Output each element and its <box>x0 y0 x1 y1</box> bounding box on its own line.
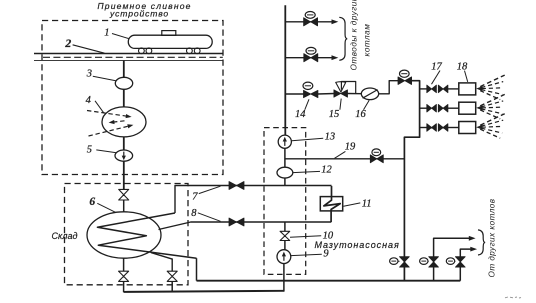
wire drain valve B down <box>171 281 173 291</box>
rotated label "Отводы к другим котлам" <box>350 0 372 71</box>
rails (track) <box>34 54 223 61</box>
scan artifacts bottom right <box>505 297 521 298</box>
burner 18 nozzle <box>459 102 476 114</box>
valve with gauge on recirculation riser <box>390 257 410 267</box>
drain valve A <box>119 271 129 281</box>
burner 18 nozzle <box>459 122 476 134</box>
wire valve to tank 6 <box>123 200 125 212</box>
dashed enclosure - Мазутонасосная pump house <box>264 128 306 275</box>
wire pump 16 to header valve <box>379 81 399 94</box>
svg-text:17: 17 <box>431 62 442 73</box>
label 13 <box>292 132 335 143</box>
drain valve B <box>167 271 177 281</box>
wire pump 13 to oval 12 <box>284 148 286 167</box>
svg-text:котлам: котлам <box>363 24 372 57</box>
pump 5 <box>115 150 133 161</box>
svg-text:Отводы к другим: Отводы к другим <box>350 0 359 71</box>
wire filter 15 to pump 16 <box>347 93 361 95</box>
valve with gauge (middle riser) <box>420 257 439 267</box>
valve 10 <box>280 231 290 240</box>
pump suction header (bottom left) <box>124 291 284 292</box>
main riser wire (top) <box>284 5 286 135</box>
svg-text:4: 4 <box>86 95 92 106</box>
burner branch 1 with valves 17 <box>420 85 459 93</box>
tank bottom drain B diagonal <box>151 253 172 272</box>
pump 13 <box>278 135 291 148</box>
wire 4 to pump 5 <box>123 137 125 150</box>
svg-text:18: 18 <box>457 62 468 73</box>
label 15 <box>329 99 342 120</box>
svg-text:14: 14 <box>295 109 306 120</box>
heating coil zigzag through tank <box>97 213 196 258</box>
label 1 <box>104 27 128 38</box>
label 7 <box>192 186 220 203</box>
heat exchanger 11 loop <box>324 186 340 222</box>
suction line 7 from tank <box>175 186 332 214</box>
valve with gauge on line 19 <box>370 149 383 163</box>
wire valve 14 to filter 15 <box>318 93 335 96</box>
valve on line 7 <box>229 182 244 190</box>
svg-text:19: 19 <box>345 142 356 153</box>
return riser to recirculation line <box>196 258 198 281</box>
heater-mixer 4 <box>87 107 146 137</box>
recirculation return line (bottom) <box>197 280 461 282</box>
flow meter 12 <box>277 167 293 178</box>
wire pump 5 down to tank valve <box>123 161 125 189</box>
svg-text:8: 8 <box>191 208 197 219</box>
drain device 3 <box>115 77 132 89</box>
label 18 <box>457 62 468 82</box>
rotated label "От других котлов" <box>488 198 497 277</box>
dashed enclosure - receiving drain facility <box>42 21 223 175</box>
burner flame spray <box>476 114 505 139</box>
valve with gauge (right riser) <box>446 257 465 267</box>
branch to other boilers (upper) <box>285 19 338 24</box>
tank bottom drain A <box>123 258 125 271</box>
burner 18 nozzle <box>459 83 476 95</box>
svg-text:6: 6 <box>89 196 95 208</box>
label 4 <box>86 95 104 113</box>
wire 3 to 4 <box>123 89 125 107</box>
burner branch 2 with valves <box>420 104 459 112</box>
svg-text:15: 15 <box>329 109 340 120</box>
recirculation line 19 <box>285 158 404 160</box>
brace - ot drugih kotlov <box>478 230 485 255</box>
pump 9 <box>277 250 291 264</box>
burner flame spray <box>476 75 505 100</box>
valve with gauge (upper branch) <box>304 12 318 26</box>
label 11 <box>344 199 372 210</box>
svg-text:1: 1 <box>104 27 109 38</box>
svg-text:7: 7 <box>192 192 198 203</box>
label 9 <box>291 248 329 259</box>
wire rails to item 3 <box>123 61 125 78</box>
wire 12 to line 7 <box>284 178 286 186</box>
burner branch 3 with valves <box>420 124 459 132</box>
svg-text:2: 2 <box>64 36 71 50</box>
label 14 <box>295 99 309 120</box>
label 2 <box>64 36 104 53</box>
return riser from other boilers (right) <box>460 247 477 281</box>
valve on line 8 <box>229 218 244 226</box>
label 5 <box>87 145 117 156</box>
svg-text:От других котлов: От других котлов <box>488 198 497 277</box>
label 17 <box>431 62 442 85</box>
svg-text:10: 10 <box>323 230 334 241</box>
label 8 <box>191 208 220 222</box>
valve with gauge (lower branch) <box>304 47 318 61</box>
svg-text:5: 5 <box>87 145 92 156</box>
return riser from other boilers (middle) <box>434 236 476 281</box>
branch to other boilers (lower) <box>285 55 338 60</box>
burner header wire <box>404 81 419 281</box>
heat exchanger 11 body <box>320 197 342 211</box>
wire pump 9 to suction header <box>283 264 285 292</box>
label 19 <box>335 142 356 159</box>
svg-text:16: 16 <box>355 109 366 120</box>
svg-text:3: 3 <box>86 68 92 79</box>
brace - otvody <box>339 17 347 60</box>
svg-text:Склад: Склад <box>52 231 78 241</box>
wire line 8 to valve 10 <box>284 222 286 231</box>
label 6 <box>89 196 116 213</box>
storage tank 6 <box>87 212 161 258</box>
svg-text:13: 13 <box>325 132 336 143</box>
svg-text:11: 11 <box>362 199 372 210</box>
wire valve 10 to pump 9 <box>284 241 286 250</box>
suction line 8 from tank <box>159 222 332 230</box>
dashed divider through rails <box>43 56 223 58</box>
wire drain valve A to suction header <box>123 281 125 292</box>
svg-text:устройство: устройство <box>109 9 169 19</box>
label 16 <box>355 100 369 120</box>
burner flame spray <box>476 94 505 119</box>
label 12 <box>293 164 333 175</box>
title "Приемное сливное устройство" <box>97 1 191 19</box>
label 10 <box>290 230 334 241</box>
label 3 <box>86 68 116 80</box>
tank inlet valve <box>119 189 129 200</box>
svg-text:9: 9 <box>323 248 329 259</box>
wire main riser to valve 14 <box>285 93 304 95</box>
svg-text:12: 12 <box>321 164 332 175</box>
dashed enclosure - storage Склад <box>65 184 189 285</box>
valve 14 with gauge <box>303 82 318 98</box>
pump 16 <box>361 88 378 100</box>
railway tank car 1 <box>128 31 212 54</box>
header valve with gauge <box>398 70 412 84</box>
filter 15 <box>334 82 356 98</box>
